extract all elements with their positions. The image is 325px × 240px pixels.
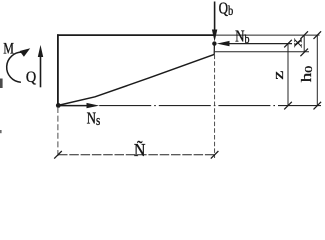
dimension line h0 <box>316 35 318 106</box>
node: bottom-left junction dot (Ns point) <box>56 103 61 108</box>
top extension line to h0 dimension <box>216 34 320 36</box>
svg-text:h0: h0 <box>298 66 314 83</box>
right vertical extension line (dashed) <box>214 55 216 158</box>
force Nb arrow <box>227 43 292 45</box>
force Q arrow (up) <box>40 55 42 87</box>
svg-text:Nb: Nb <box>235 28 250 46</box>
svg-text:Ñ: Ñ <box>134 140 146 160</box>
svg-text:Qb: Qb <box>219 0 234 18</box>
force Ns arrow <box>58 105 89 107</box>
beam left edge <box>57 34 59 106</box>
tick at x top <box>300 31 308 39</box>
dimension line x <box>303 35 305 52</box>
moment arc arrowhead <box>20 48 31 57</box>
vertical segment from junction dot to crack tip <box>213 44 215 55</box>
inclined crack (diagonal) <box>58 54 214 105</box>
svg-text:z: z <box>270 71 286 80</box>
tick at h0 bottom <box>314 102 322 110</box>
scan artifact left edge 1 <box>0 79 3 89</box>
compression zone bottom extension line <box>215 51 309 53</box>
tick at x bottom <box>300 49 308 57</box>
svg-text:Ns: Ns <box>87 110 101 128</box>
tick at N right <box>211 151 219 159</box>
beam top edge <box>57 34 216 36</box>
svg-text:Q: Q <box>26 70 37 87</box>
dimension line z <box>287 44 289 106</box>
node: Qb/Nb junction dot <box>212 41 216 45</box>
moment arc arrow <box>7 52 23 82</box>
left vertical extension line (dashed) <box>57 107 59 158</box>
bottom dimension line N <box>58 154 215 156</box>
svg-text:x: x <box>288 37 305 47</box>
tick at N left <box>54 151 62 159</box>
scan artifact left edge 2 <box>0 130 2 133</box>
force Qb arrow <box>214 2 216 33</box>
tick at h0 top <box>314 31 322 39</box>
tick at z bottom <box>284 102 292 110</box>
tick at z top <box>284 40 292 48</box>
reinforcement axis (dash-dot line) <box>99 105 321 107</box>
